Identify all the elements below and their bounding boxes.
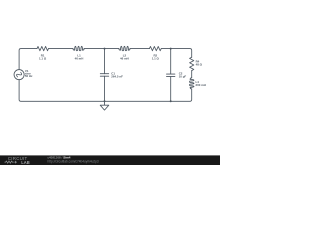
wire: L2 to R2 <box>130 48 149 50</box>
voltage source V1 <box>14 70 24 80</box>
svg-text:http://circuitlab.com/c74b4uyr: http://circuitlab.com/c74b4uyrk4u2p3 <box>48 159 99 163</box>
svg-text:50 Hz: 50 Hz <box>25 74 33 78</box>
node C junction dot (C2 bottom) <box>170 100 172 102</box>
inductor L2 <box>119 46 130 50</box>
capacitor C1 <box>100 74 108 77</box>
CircuitLab logo resistor glyph <box>5 161 17 164</box>
capacitor C2 <box>167 74 175 77</box>
svg-text:LAB: LAB <box>21 160 29 165</box>
inductor L4 <box>190 78 194 89</box>
svg-text:200 mH: 200 mH <box>196 83 206 87</box>
resistor R1 <box>37 46 49 50</box>
wire: C2 branch top <box>170 49 172 75</box>
resistor R2 <box>149 46 161 50</box>
svg-text:48 Ω: 48 Ω <box>196 62 203 66</box>
svg-text:46 mH: 46 mH <box>75 57 84 61</box>
svg-text:46 mH: 46 mH <box>120 57 129 61</box>
wire: C1 branch bottom <box>104 76 106 101</box>
svg-text:10 µF: 10 µF <box>179 75 187 79</box>
resistor R4 <box>190 57 194 70</box>
wire: R2 to node B and top-right corner down to R4 <box>161 49 191 58</box>
wire: top-left corner to R1 <box>19 49 37 70</box>
wire: R4 to L4 <box>191 71 193 78</box>
inductor L1 <box>73 46 84 50</box>
ground <box>100 101 109 110</box>
wire: L1 to node A <box>84 48 104 50</box>
svg-text:1.1 Ω: 1.1 Ω <box>152 57 160 61</box>
wire: L4 down to bottom-right corner and bottom wire <box>105 89 192 101</box>
wire: C1 branch top <box>104 49 106 74</box>
wire: node A to L2 <box>105 48 119 50</box>
svg-text:1.1 Ω: 1.1 Ω <box>39 57 47 61</box>
wire: source bottom to bottom-left corner <box>19 80 104 102</box>
watermark bar <box>0 155 220 165</box>
node A junction dot <box>104 48 106 50</box>
node B junction dot <box>170 48 172 50</box>
node D junction dot (ground node) <box>104 100 106 102</box>
wire: R1 to L1 <box>49 48 74 50</box>
wire: C2 branch bottom <box>170 77 172 102</box>
svg-text:264.5 nF: 264.5 nF <box>111 75 123 79</box>
